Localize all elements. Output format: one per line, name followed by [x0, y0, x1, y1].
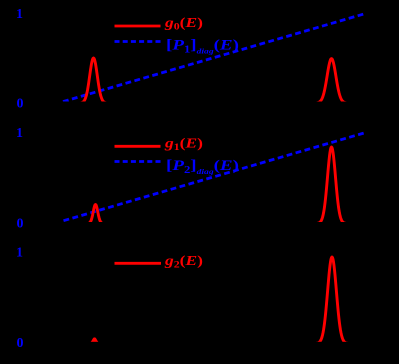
red gaussian peak right panel 3 [314, 257, 350, 344]
svg-text:1: 1 [16, 246, 23, 261]
bottom spine cover panel 3 [28, 342, 368, 345]
svg-text:g2(E): g2(E) [164, 254, 204, 271]
svg-text:1: 1 [16, 126, 23, 141]
svg-text:g0(E): g0(E) [164, 16, 204, 33]
legend blue dashed line panel 1 [115, 40, 161, 43]
svg-text:0: 0 [17, 336, 24, 351]
bottom spine cover panel 1 [28, 102, 368, 106]
red gaussian peak right panel 2 [313, 147, 348, 224]
svg-text:1: 1 [16, 7, 23, 22]
red tiny bump panel 3 [90, 339, 100, 344]
svg-text:0: 0 [17, 97, 24, 112]
red gaussian peak right panel 1 [312, 59, 350, 103]
red small gaussian panel 2 [86, 205, 105, 224]
legend red line panel 1 [115, 25, 161, 28]
blue dashed line panel 1 [63, 14, 365, 102]
svg-text:g1(E): g1(E) [164, 137, 204, 154]
legend blue dashed line panel 2 [115, 160, 161, 163]
legend red line panel 3 [115, 262, 162, 265]
svg-text:0: 0 [17, 216, 24, 231]
legend red line panel 2 [115, 145, 161, 148]
red gaussian peak left panel 1 [78, 58, 110, 103]
blue dashed line panel 2 [64, 133, 365, 221]
bottom spine cover panel 2 [28, 222, 368, 226]
